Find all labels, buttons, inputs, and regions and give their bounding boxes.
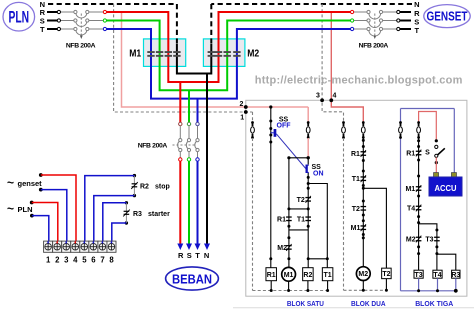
pushbutton SS OFF branch wire [269, 105, 272, 108]
contact R1 NC (BLOK TIGA) [416, 151, 422, 152]
wire T GENSET label to NFB [400, 28, 411, 30]
relay coil R2 (BLOK SATU) [307, 259, 309, 268]
branch to relay R3 (BLOK TIGA) [437, 254, 456, 270]
contact R1 NC (BLOK DUA) [361, 151, 367, 152]
svg-text:BLOK DUA: BLOK DUA [351, 301, 386, 308]
svg-text:PLN: PLN [8, 8, 29, 27]
relay coil R3 (BLOK TIGA) [452, 270, 460, 278]
NFB GENSET mechanical link [374, 14, 376, 36]
svg-text:NFB 200A: NFB 200A [138, 142, 168, 149]
connector circles above load NFB [179, 122, 182, 125]
wire R from PLN label to NFB [47, 11, 57, 13]
NFB PLN mechanical link [80, 14, 82, 36]
svg-text:7: 7 [100, 256, 104, 265]
wire N PLN drop into M1 (dashed then solid) [176, 4, 178, 46]
svg-text:genset: genset [18, 179, 43, 188]
svg-text:2: 2 [240, 101, 244, 108]
svg-text:GENSET: GENSET [427, 9, 468, 24]
BLOK DUA N rail dashed with fuse [342, 121, 345, 124]
BLOK DUA supply fuse from wire 4 [362, 121, 365, 124]
svg-text:R2: R2 [303, 272, 312, 279]
wire R drop to load breaker [179, 82, 181, 123]
svg-text:R1: R1 [351, 151, 360, 158]
rung connecting chains upper [289, 208, 308, 210]
svg-text:M1: M1 [284, 272, 294, 279]
gray leads into load NFB [179, 126, 181, 139]
contact M1 NC interlock (BLOK DUA) [361, 225, 367, 226]
contactor M1 box [144, 39, 186, 67]
timer coil T2 box (BLOK DUA) [382, 268, 392, 279]
BLOK TIGA battery positive loop (purple) [400, 138, 402, 291]
NFB 200A breaker GENSET pole S [354, 20, 367, 22]
BLOK DUA chain wire [362, 138, 364, 267]
BLOK TIGA bottom rail [401, 290, 457, 292]
svg-text:PLN: PLN [18, 205, 33, 214]
timer coil T3 (BLOK TIGA) [414, 270, 423, 278]
svg-text:4: 4 [73, 256, 78, 265]
svg-text:M2: M2 [406, 237, 416, 244]
BLOK SATU N rail dashed with fuse [252, 112, 254, 122]
svg-text:4: 4 [333, 93, 337, 100]
outer control enclosure box [246, 100, 467, 296]
wire N drop to load [206, 75, 208, 247]
contact T2 NC in SS ON chain [305, 197, 311, 198]
contact M1 NC (BLOK TIGA) [416, 186, 422, 187]
load arrowheads [177, 244, 183, 251]
svg-text:T: T [415, 26, 420, 35]
svg-text:NFB 200A: NFB 200A [66, 42, 96, 49]
wire N from GENSET (dashed) [211, 3, 412, 5]
svg-text:http://electric-mechanic.blogs: http://electric-mechanic.blogspot.com [255, 75, 463, 87]
fuse on battery loop left rail [399, 121, 402, 124]
svg-text:T4: T4 [407, 206, 415, 213]
svg-text:BLOK SATU: BLOK SATU [287, 301, 324, 308]
GENSET source ellipse [424, 5, 470, 28]
wire SS ON node to holding chain (left) [289, 158, 308, 259]
svg-text:M2: M2 [277, 245, 287, 252]
svg-text:T3: T3 [415, 272, 423, 279]
relay R3 starter coil symbol [125, 201, 128, 204]
NFB 200A breaker PLN pole R [61, 11, 74, 13]
wire S from PLN label to NFB [47, 20, 57, 22]
svg-text:ON: ON [313, 171, 324, 178]
svg-text:8: 8 [109, 256, 114, 265]
svg-text:M1: M1 [129, 48, 141, 59]
NFB 200A breaker PLN pole T [61, 28, 74, 30]
svg-text:~: ~ [7, 176, 14, 190]
svg-text:R1: R1 [267, 272, 276, 279]
timer coil T1 (BLOK SATU) [326, 259, 328, 268]
control wire 3 tap from GENSET N (thin gray dashed) [322, 4, 343, 122]
coil bottom wires to N rail BLOK SATU [270, 281, 272, 291]
contact T1 NO in SS ON chain [305, 216, 311, 217]
control wire 1 tap from PLN N (thin gray dashed) [114, 4, 253, 112]
svg-text:T1: T1 [352, 176, 360, 183]
NFB 200A breaker GENSET pole R [354, 11, 367, 13]
terminal strip 8 screw terminals [44, 241, 53, 252]
svg-text:M2: M2 [358, 271, 368, 278]
svg-text:OFF: OFF [277, 123, 292, 130]
pushbutton SS OFF symbol (NC) [269, 120, 272, 123]
contact T2 NO (BLOK DUA) [361, 206, 367, 207]
genset control wire blue to terminal 3 [39, 188, 43, 192]
svg-text:S: S [187, 251, 192, 260]
svg-text:R3: R3 [451, 272, 460, 279]
svg-text:T: T [40, 25, 45, 34]
svg-text:5: 5 [82, 256, 87, 265]
NFB 200A breaker GENSET pole T [354, 28, 367, 30]
control wire 4 tap from GENSET R phase (thin red) [331, 12, 363, 122]
PLN control wire red to terminal 2 [30, 201, 34, 205]
wire N GENSET drop into M2 (dashed then solid) [210, 4, 212, 46]
junction dots above coils BLOK SATU [269, 257, 272, 260]
svg-text:1: 1 [46, 256, 51, 265]
terminal wire stubs into cells [47, 241, 49, 243]
svg-text:NFB 200A: NFB 200A [359, 42, 389, 49]
svg-text:T2: T2 [297, 197, 305, 204]
svg-text:3: 3 [316, 93, 320, 100]
svg-text:BLOK TIGA: BLOK TIGA [415, 301, 453, 308]
red feed from chain fuse to switch S [419, 112, 437, 141]
battery ACCU box [434, 173, 439, 178]
wire T drop to load breaker [197, 99, 199, 123]
genset control wire red to terminal 4 [39, 173, 43, 177]
svg-text:S: S [425, 149, 430, 156]
M1 contact poles [147, 51, 154, 53]
svg-text:T3: T3 [425, 237, 433, 244]
BLOK SATU fuse on control line 2 branch [307, 107, 309, 122]
contact T3 NO (BLOK TIGA) [434, 237, 440, 238]
timer coil T4 (BLOK TIGA) [433, 270, 442, 278]
svg-text:N: N [204, 251, 209, 260]
junction dots where control wires enter enclosure [244, 105, 248, 109]
wire R GENSET label to NFB [400, 11, 411, 13]
contactor coil M1 (BLOK SATU) [288, 259, 290, 268]
wire terminal 5 to R2 top [85, 176, 135, 243]
svg-text:2: 2 [55, 256, 60, 265]
branch to T3/T4 contacts (BLOK TIGA) [419, 224, 437, 270]
wire S phase PLN-M1 bus M2-GENSET [107, 21, 351, 91]
svg-text:3: 3 [64, 256, 69, 265]
wire S GENSET label to NFB [400, 20, 411, 22]
svg-text:T2: T2 [352, 206, 360, 213]
wire terminal 6 to R2 bottom [94, 196, 135, 243]
svg-text:ACCU: ACCU [435, 183, 457, 193]
svg-text:T4: T4 [433, 272, 441, 279]
svg-text:N: N [414, 0, 419, 9]
NFB 200A breaker PLN pole S [61, 20, 74, 22]
contact T1 NC (BLOK DUA) [361, 176, 367, 177]
load NFB mechanical link dashes [173, 144, 197, 146]
contact M2 NC interlock [287, 236, 290, 239]
PLN source ellipse [3, 2, 35, 31]
control wire 2 tap from PLN R phase (thin red) [122, 12, 309, 107]
contact M2 NC (BLOK TIGA) [416, 237, 422, 238]
fuse on BLOK TIGA chain [417, 121, 420, 124]
contact T4 NC (BLOK TIGA) [416, 206, 422, 207]
wire R phase PLN-M1 bus M2-GENSET [107, 12, 351, 82]
BEBAN load ellipse [166, 267, 219, 290]
svg-text:R: R [178, 251, 184, 260]
pushbutton SS ON symbol (NO) [307, 156, 310, 159]
svg-text:M1: M1 [405, 186, 415, 193]
coil bottoms to N rail BLOK DUA [362, 281, 364, 291]
wire S drop to load breaker [188, 90, 190, 122]
BLOK TIGA main chain wire [418, 138, 420, 270]
svg-text:1: 1 [240, 115, 244, 122]
svg-text:R1: R1 [277, 216, 286, 223]
NFB 200A load breaker poles (vertical) [179, 139, 182, 142]
faint page rule line bottom right [233, 307, 474, 309]
svg-text:M1: M1 [351, 225, 361, 232]
wire T from PLN label to NFB [47, 28, 57, 30]
svg-text:R2: R2 [140, 183, 149, 190]
contactor M2 box [203, 39, 245, 67]
contactor coil M2 (BLOK DUA) [356, 267, 370, 281]
contact R1 NO in holding chain [286, 216, 292, 217]
relay R2 stop coil symbol [133, 174, 136, 177]
svg-text:T1: T1 [324, 272, 332, 279]
rung connecting chains lower [289, 229, 308, 231]
wire N bus M1-M2 join [177, 44, 211, 74]
svg-text:BEBAN: BEBAN [172, 273, 212, 287]
relay coil R1 (BLOK SATU) [270, 259, 272, 268]
svg-text:starter: starter [148, 211, 170, 218]
switch S (battery isolator) [435, 139, 438, 142]
svg-text:M2: M2 [247, 48, 259, 59]
M2 contact poles [208, 51, 215, 53]
coil bottoms to battery rail (BLOK TIGA) [418, 278, 420, 291]
branch to timer coil T2 (BLOK DUA) [363, 188, 386, 268]
wire SS ON node to T1 coil branch (right) [308, 184, 327, 260]
svg-text:R3: R3 [133, 211, 142, 218]
wire linking R2 and T1 coil tops [308, 258, 327, 260]
svg-text:R1: R1 [406, 151, 415, 158]
svg-text:T: T [195, 251, 200, 260]
wire N from PLN (dashed) [48, 3, 177, 5]
svg-text:T1: T1 [297, 216, 305, 223]
selector mechanical link SS OFF to SS ON (blue diagonal) [276, 134, 305, 169]
svg-text:stop: stop [155, 183, 170, 190]
svg-text:T2: T2 [382, 271, 390, 278]
wire terminal 7 to R3 top [103, 203, 127, 243]
wires down to load arrows [179, 161, 181, 246]
svg-text:6: 6 [91, 256, 96, 265]
PLN control wire blue to terminal 1 [30, 214, 34, 218]
wire terminal 8 to R3 bottom [112, 223, 127, 243]
wire T phase PLN-M1 bus M2-GENSET [107, 29, 351, 99]
connector circles below load NFB [179, 152, 181, 158]
svg-text:~: ~ [7, 202, 14, 216]
